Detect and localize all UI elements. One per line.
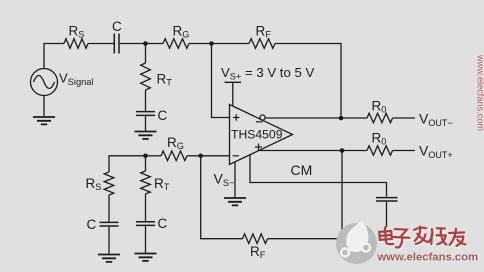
node E junction <box>143 154 148 159</box>
watermark badge <box>336 222 377 265</box>
resistor RG top <box>163 39 189 49</box>
wire R0 to VOUT+ <box>393 150 416 152</box>
wire node B to RF <box>212 43 250 45</box>
pin marker -in <box>233 155 239 157</box>
svg-text:www.elecfans.com: www.elecfans.com <box>476 54 484 131</box>
svg-text:C: C <box>112 19 122 34</box>
wire non-inverted output to node D <box>260 150 342 152</box>
ground lower-mid <box>135 254 157 261</box>
resistor RF bottom <box>243 234 268 244</box>
wire RS lower to C <box>108 195 110 222</box>
minus marker at inverted output <box>256 121 263 123</box>
node D junction <box>340 148 345 153</box>
ground VS- <box>224 198 246 205</box>
ground below top branch C <box>135 132 157 139</box>
wire C to ground lower-mid <box>145 226 147 252</box>
svg-text:C: C <box>158 216 168 231</box>
wire VSignal top to RS <box>44 44 64 69</box>
wire node D down to bottom rail (feedback) <box>341 151 343 239</box>
capacitor C shunt top branch <box>136 112 155 116</box>
resistor R0 lower <box>367 146 393 156</box>
svg-text:C: C <box>87 217 97 232</box>
svg-text:THS4509: THS4509 <box>231 128 283 142</box>
resistor RF top <box>249 39 275 49</box>
resistor RT top branch <box>141 63 151 90</box>
svg-text:C: C <box>158 108 168 123</box>
capacitor C lower-left <box>100 222 119 226</box>
wire node A to RG <box>146 43 164 45</box>
CM wire from amp to bypass capacitor <box>250 155 387 196</box>
wire CM capacitor lead down <box>386 202 388 228</box>
resistor R0 upper <box>367 113 393 123</box>
wire node A down <box>145 44 147 64</box>
ground lower-left <box>98 255 120 262</box>
wire node F down to bottom rail <box>201 156 243 239</box>
capacitor CM bypass <box>376 198 398 201</box>
node A junction <box>143 41 148 46</box>
wire node F to amp -in <box>201 155 230 157</box>
wire inverted output to node C <box>265 117 341 119</box>
resistor RG lower <box>161 151 187 161</box>
wire node E to RG lower <box>146 155 162 157</box>
ground below VSignal <box>43 96 45 117</box>
wire amp to VS- ground <box>234 162 236 197</box>
wire node D to R0 lower <box>342 150 367 152</box>
pin marker +in <box>233 114 239 120</box>
plus marker at non-inverted output <box>255 144 262 151</box>
wire R0 to VOUT- <box>393 117 416 119</box>
wire node B down to op-amp +in <box>212 44 230 118</box>
svg-text:www.elecfans.com: www.elecfans.com <box>377 252 479 264</box>
wire RG to node F <box>187 155 201 157</box>
VS+ supply stub <box>225 82 242 106</box>
wire C to ground <box>145 116 147 130</box>
wire RF to feedback corner down to node C <box>275 44 341 116</box>
wire RF bottom to feedback riser <box>268 238 343 240</box>
node B junction <box>209 41 214 46</box>
resistor RS lower <box>104 172 114 195</box>
wire RT lower to C <box>145 194 147 221</box>
svg-text:CM: CM <box>291 162 313 178</box>
node F junction <box>198 154 203 159</box>
resistor RT lower <box>141 171 151 194</box>
resistor RS top <box>64 39 88 49</box>
wire node E down to RT lower <box>145 156 147 171</box>
wire RG to node B <box>189 43 212 45</box>
voltage source VSignal <box>31 69 58 96</box>
watermark text <box>379 226 467 249</box>
wire RT to C shunt <box>145 90 147 111</box>
capacitor C series <box>114 34 119 54</box>
capacitor C lower-mid <box>136 222 155 226</box>
wire lower rail corner to node E <box>109 156 146 172</box>
wire node C to R0 upper <box>341 117 367 119</box>
op-amp U1 THS4509 <box>230 105 293 165</box>
wire RS to C <box>88 43 114 45</box>
wire C to ground lower-left <box>108 227 110 254</box>
node C junction <box>339 116 344 121</box>
wire C to node A <box>120 43 146 45</box>
inverting output bubble <box>260 115 265 120</box>
